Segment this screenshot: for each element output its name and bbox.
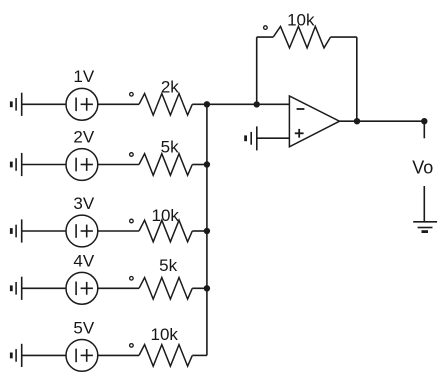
voltage source V4 bbox=[66, 272, 98, 304]
svg-text:1V: 1V bbox=[73, 67, 94, 86]
svg-text:Vo: Vo bbox=[412, 158, 433, 178]
voltage source V2 bbox=[66, 149, 98, 181]
wire GND2 to V2 bbox=[22, 164, 66, 166]
wire V5 to R5 bbox=[98, 354, 139, 356]
resistor R4 bbox=[139, 278, 192, 300]
wire GND4 to V4 bbox=[22, 287, 66, 289]
svg-text:10k: 10k bbox=[150, 325, 178, 344]
svg-text:5V: 5V bbox=[73, 318, 94, 337]
svg-text:3V: 3V bbox=[73, 194, 94, 213]
junction node 3 bbox=[204, 228, 210, 234]
ground GND4 (source V4 return) bbox=[11, 277, 21, 300]
ground GND5 (source V5 return) bbox=[11, 344, 21, 367]
svg-text:10k: 10k bbox=[287, 11, 315, 30]
node output Vo bbox=[421, 118, 427, 124]
junction feedback/output bbox=[354, 118, 360, 124]
wire V1 to R1 bbox=[98, 103, 139, 105]
pin 1 marker of R4 bbox=[130, 277, 134, 281]
wire inverting input bbox=[207, 103, 290, 105]
wire non-inverting input bbox=[257, 137, 290, 139]
svg-text:2V: 2V bbox=[73, 127, 94, 146]
pin 1 marker of R3 bbox=[130, 219, 134, 223]
wire R4 to bus bbox=[192, 287, 207, 289]
wire R5 to bus bbox=[192, 354, 207, 356]
op-amp U1 bbox=[289, 96, 339, 147]
wire output bbox=[340, 120, 425, 122]
wire GND5 to V5 bbox=[22, 354, 66, 356]
ground output bbox=[413, 222, 437, 232]
ground GND1 (source V1 return) bbox=[11, 93, 21, 116]
junction node 1 bbox=[204, 101, 210, 107]
ground at non-inverting input bbox=[246, 126, 257, 150]
voltage source V5 bbox=[66, 340, 98, 372]
wire R2 to bus bbox=[192, 164, 207, 166]
resistor Rf bbox=[273, 26, 330, 48]
wire V3 to R3 bbox=[98, 230, 139, 232]
junction node 2 bbox=[204, 161, 210, 167]
voltage source V3 bbox=[66, 215, 98, 247]
pin 1 marker of Rf bbox=[264, 26, 268, 30]
svg-text:5k: 5k bbox=[159, 256, 177, 275]
wire feedback right drop bbox=[356, 37, 358, 121]
wire V4 to R4 bbox=[98, 287, 139, 289]
resistor R1 bbox=[139, 94, 192, 116]
ground GND2 (source V2 return) bbox=[11, 153, 21, 176]
wire output stub bbox=[423, 121, 425, 138]
ground GND3 (source V3 return) bbox=[11, 219, 21, 242]
resistor R3 bbox=[139, 220, 192, 242]
wire R1 to bus bbox=[192, 103, 207, 105]
wire feedback top right bbox=[331, 36, 357, 38]
wire to output ground bbox=[423, 186, 425, 222]
wire GND1 to V1 bbox=[22, 103, 66, 105]
wire feedback left riser bbox=[256, 37, 258, 104]
wire summing bus bbox=[206, 104, 208, 355]
junction node 4 bbox=[204, 285, 210, 291]
resistor R2 bbox=[139, 154, 192, 176]
voltage source V1 bbox=[66, 88, 98, 120]
svg-text:4V: 4V bbox=[73, 251, 94, 270]
svg-text:10k: 10k bbox=[151, 206, 179, 225]
wire feedback top left bbox=[257, 36, 274, 38]
resistor R5 bbox=[139, 345, 192, 367]
svg-text:2k: 2k bbox=[161, 77, 179, 96]
wire V2 to R2 bbox=[98, 164, 139, 166]
pin 1 marker of R1 bbox=[130, 93, 134, 97]
svg-text:5k: 5k bbox=[161, 138, 179, 157]
pin 1 marker of R2 bbox=[130, 153, 134, 157]
pin 1 marker of R5 bbox=[130, 344, 134, 348]
junction feedback tap bbox=[254, 101, 260, 107]
wire GND3 to V3 bbox=[22, 230, 66, 232]
wire R3 to bus bbox=[192, 230, 207, 232]
